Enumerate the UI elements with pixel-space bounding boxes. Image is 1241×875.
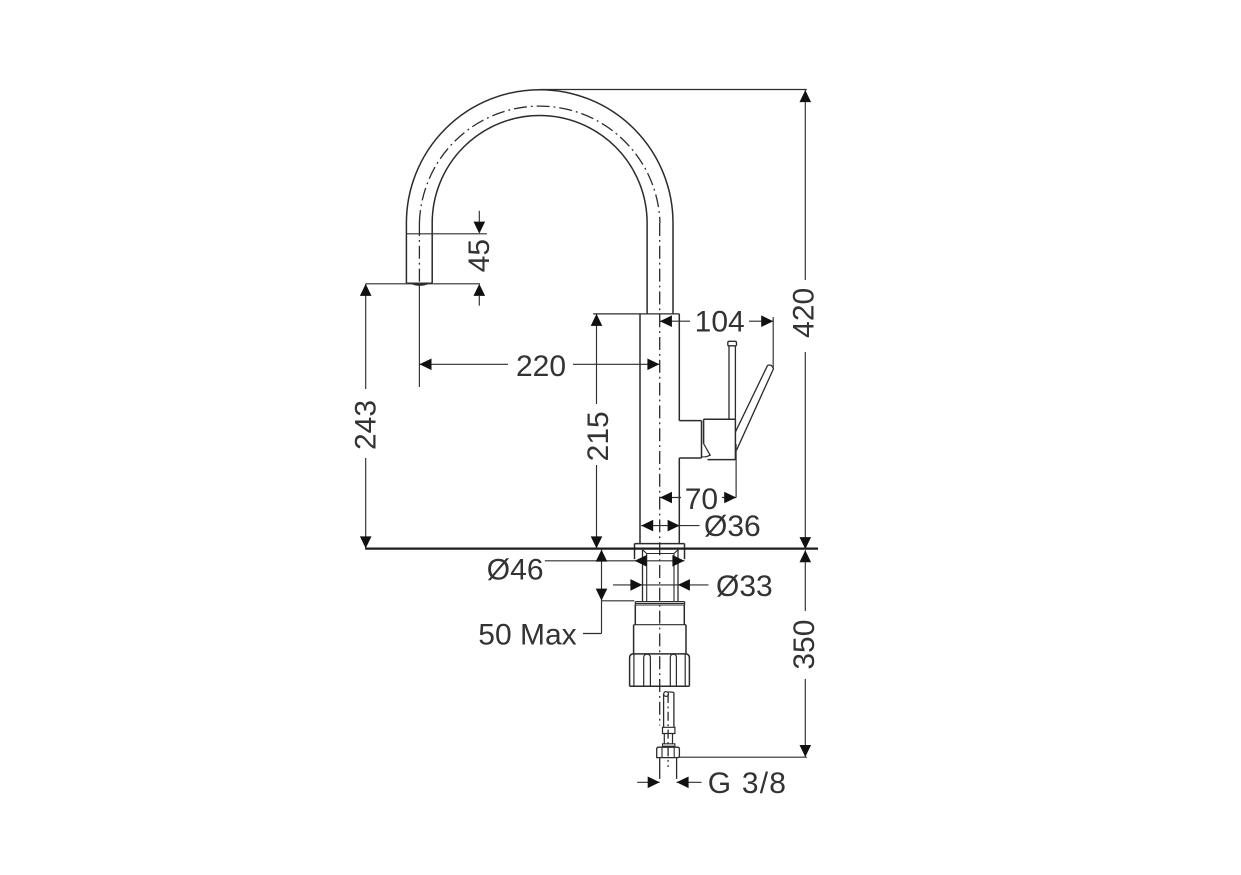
svg-text:104: 104 — [695, 305, 745, 338]
right limb outer wall — [672, 223, 674, 314]
upper cylinder — [635, 605, 684, 625]
cone transition right — [674, 550, 678, 554]
threaded shank inner walls — [647, 554, 674, 602]
dim 45 extension upper tangent — [406, 233, 487, 235]
dim D33 line — [613, 584, 709, 586]
arrow D36 left — [641, 520, 653, 532]
hose top circle — [664, 692, 669, 697]
hex nut outline — [657, 747, 680, 757]
spout gooseneck outer arc — [406, 90, 673, 223]
cone bottom line — [647, 553, 674, 555]
dim 243 line — [365, 284, 367, 549]
cylinder step line — [634, 624, 686, 626]
handle connector bottom — [679, 457, 701, 459]
svg-text:50 Max: 50 Max — [478, 618, 576, 651]
dim 70 line — [660, 497, 736, 499]
cone transition left — [643, 550, 647, 554]
svg-text:220: 220 — [516, 350, 566, 383]
arrow 70 right — [724, 492, 736, 504]
hose top cap — [668, 691, 674, 694]
spout gooseneck inner arc — [432, 116, 647, 223]
middle cylinder — [634, 625, 686, 655]
dim D46 line — [545, 560, 685, 562]
arrow D46 left — [635, 555, 647, 567]
dim G38 line left — [637, 781, 660, 783]
arrow 50max top — [596, 550, 608, 562]
knurl facet left — [633, 654, 635, 686]
dim 420 line — [804, 90, 806, 549]
arrow 243 bottom — [360, 536, 372, 548]
countertop baseline — [365, 547, 818, 549]
knurl facet right — [684, 654, 686, 686]
svg-text:215: 215 — [582, 411, 615, 461]
cartridge box right — [734, 419, 736, 459]
dim 50max line — [601, 549, 603, 634]
arrow 215 bottom — [591, 536, 603, 548]
dim 420 extension at apex — [540, 89, 807, 91]
centerline body vertical — [659, 223, 661, 726]
dim 220 line — [420, 363, 660, 365]
dim 70 right extension — [735, 444, 737, 498]
dim 350 line — [804, 550, 806, 757]
svg-text:45: 45 — [463, 239, 496, 272]
arrow 220 left — [420, 359, 432, 371]
dim 215 line — [596, 314, 598, 549]
dim 220 left extension from spout centerline — [418, 284, 420, 387]
dim 243/45 bottom extension — [366, 283, 480, 285]
washer ring sides — [635, 602, 684, 605]
base flange right side — [684, 544, 686, 560]
arrow 350 top — [800, 550, 812, 562]
connector fillet — [702, 455, 710, 457]
arrow 70 left — [660, 492, 672, 504]
arrow 45 bottom — [474, 284, 486, 296]
arrow G38 left — [648, 777, 660, 789]
spout aerator bump — [411, 283, 429, 285]
dim 104 right extension to lever tip — [772, 317, 774, 369]
body top ledge with 215 extension — [593, 313, 679, 315]
dim 45 upper arrow tail — [478, 211, 480, 222]
svg-text:420: 420 — [788, 288, 821, 338]
svg-text:350: 350 — [788, 620, 821, 670]
washer ring — [635, 602, 684, 605]
dim G38 line right — [677, 781, 702, 783]
knurl groove left — [644, 654, 651, 686]
arrow D46 right — [672, 555, 684, 567]
handle rod upright walls — [729, 346, 735, 420]
handle rod cap — [728, 341, 737, 346]
arrow 104 right — [761, 315, 773, 327]
spout left limb inner wall — [431, 223, 433, 283]
dim 350 extension at hex nut — [679, 756, 806, 758]
svg-text:Ø36: Ø36 — [704, 510, 761, 543]
dim 45 lower arrow tail — [478, 296, 480, 306]
handle lever upper edge — [735, 365, 767, 432]
arrow 220 right — [647, 359, 659, 371]
arrow 104 left — [660, 315, 672, 327]
cartridge box left double line — [702, 419, 704, 458]
arrow D36 right — [668, 520, 680, 532]
centerline gooseneck arc — [419, 106, 660, 223]
svg-text:Ø46: Ø46 — [487, 554, 544, 587]
handle connector top — [679, 420, 701, 422]
dim D36 line — [641, 525, 699, 527]
spout left limb outer wall — [405, 223, 407, 283]
base flange left side — [634, 544, 636, 560]
arrow 243 top — [360, 284, 372, 296]
arrow D33 right — [678, 579, 690, 591]
hose tube walls — [664, 692, 674, 727]
arrow 420 bottom — [800, 537, 812, 549]
arrow D33 left — [630, 579, 642, 591]
threaded shank outer walls — [643, 550, 679, 602]
hose collar — [663, 727, 675, 733]
hex nut facets — [662, 747, 674, 757]
body column left wall — [639, 314, 641, 544]
arrow 215 top — [591, 314, 603, 326]
body column right wall — [678, 314, 680, 544]
centerline hose — [667, 694, 669, 767]
arrow 420 top — [800, 90, 812, 102]
hose narrow section — [664, 734, 672, 744]
cartridge box bottom — [708, 459, 736, 461]
hose ring — [663, 744, 675, 746]
svg-text:Ø33: Ø33 — [716, 570, 773, 603]
knurl groove right — [670, 654, 676, 686]
arrow G38 right — [677, 777, 689, 789]
dim 50max leader to text — [583, 633, 602, 635]
svg-text:243: 243 — [350, 400, 383, 450]
spout tip end line — [406, 282, 432, 284]
right limb inner wall — [646, 223, 648, 314]
dim 104 line — [660, 320, 773, 322]
knurled nut outline — [630, 654, 690, 686]
arrow 45 top — [474, 222, 486, 234]
base flange top — [635, 543, 685, 545]
handle lever tip cap — [768, 365, 774, 369]
cartridge box top — [704, 418, 736, 420]
G3/8 bottom tube — [660, 758, 677, 779]
arrow 50max bottom — [596, 589, 608, 601]
centerline spout vertical — [418, 223, 420, 284]
cartridge chamfer — [704, 444, 711, 456]
dim 50max extension — [602, 600, 635, 602]
svg-text:G 3/8: G 3/8 — [708, 767, 787, 800]
handle lever lower edge — [737, 369, 774, 450]
arrow 350 bottom — [800, 745, 812, 757]
